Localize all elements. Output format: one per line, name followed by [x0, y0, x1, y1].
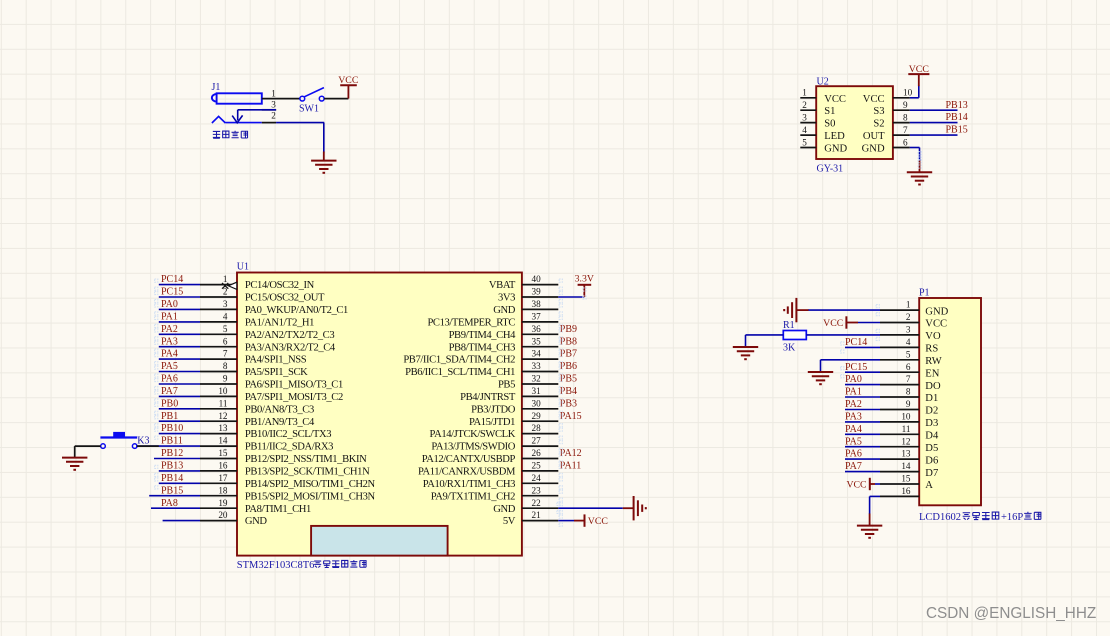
svg-text:10: 10 [903, 88, 913, 98]
U2 pin 1 (VCC) [800, 88, 846, 105]
svg-text:37: 37 [532, 312, 542, 322]
svg-text:PA6/SPI1_MISO/T3_C1: PA6/SPI1_MISO/T3_C1 [245, 380, 343, 391]
svg-text:PA1/AN1/T2_H1: PA1/AN1/T2_H1 [245, 318, 314, 329]
svg-text:A: A [925, 480, 933, 491]
svg-text:15: 15 [901, 474, 911, 484]
svg-text:D6: D6 [925, 455, 938, 466]
U1 pin 11 net PB0 [159, 398, 314, 415]
U1 pin 10 net PA7 [159, 386, 343, 403]
svg-text:PB10/IIC2_SCL/TX3: PB10/IIC2_SCL/TX3 [245, 429, 331, 440]
svg-text:11: 11 [902, 424, 911, 434]
svg-text:1: 1 [906, 300, 911, 310]
svg-text:GND: GND [245, 516, 268, 527]
svg-text:23: 23 [532, 485, 542, 495]
module U2 GY-31 body [816, 77, 893, 175]
svg-text:PA4: PA4 [845, 424, 862, 435]
svg-text:PA1: PA1 [161, 312, 178, 323]
svg-text:31: 31 [532, 386, 542, 396]
svg-text:14: 14 [218, 436, 228, 446]
wire SW1 to VCC [324, 98, 348, 100]
ground (right of U1) [634, 496, 646, 520]
J1 pin 3 [262, 100, 276, 110]
svg-text:PB9/TIM4_CH4: PB9/TIM4_CH4 [449, 330, 517, 341]
svg-text:PB14: PB14 [161, 473, 183, 484]
svg-text:22: 22 [532, 498, 542, 508]
svg-text:D7: D7 [925, 468, 938, 479]
svg-text:S3: S3 [873, 106, 884, 117]
U1 pin 7 net PA4 [159, 349, 307, 366]
U1 pin 28 [430, 423, 559, 440]
wire U2 pin6 to ground [910, 148, 920, 173]
wire R1 right to P1 pin3 VO [806, 334, 880, 336]
svg-text:PA12/CANTX/USBDP: PA12/CANTX/USBDP [422, 454, 516, 465]
svg-text:DO: DO [925, 381, 941, 392]
wire P1 pin16 to ground [870, 496, 880, 525]
svg-text:PB8/TIM4_CH3: PB8/TIM4_CH3 [449, 342, 516, 353]
svg-text:10: 10 [901, 412, 911, 422]
svg-text:PB13: PB13 [946, 100, 968, 111]
svg-text:PA15: PA15 [560, 411, 582, 422]
wire U1 pin22 GND to ground [558, 507, 633, 509]
svg-text:2: 2 [906, 312, 911, 322]
ground (below RW wire) [808, 372, 833, 384]
svg-text:5: 5 [906, 349, 911, 359]
svg-text:PB6/IIC1_SCL/TIM4_CH1: PB6/IIC1_SCL/TIM4_CH1 [405, 367, 515, 378]
U1 pin 16 net PB13 [159, 461, 370, 478]
wire U1 pin39 to 3.3V [558, 285, 584, 297]
U1 pin 9 net PA6 [159, 374, 343, 391]
wire J1 pin2 to ground [276, 123, 324, 161]
svg-text:6: 6 [223, 336, 228, 346]
U1 pin 31 net PB4 [460, 386, 577, 403]
U1 pin 22 [493, 498, 558, 515]
power 3.3V [575, 274, 594, 285]
ground (below U2) [907, 172, 932, 184]
svg-text:PC15: PC15 [845, 362, 867, 373]
svg-text:1: 1 [802, 88, 807, 98]
ground (left of P1 pin1) [784, 298, 796, 322]
U1 pin 36 net PB9 [449, 324, 577, 341]
ground (left of K3) [62, 458, 87, 470]
P1 pin 11 D4 net PA4 [845, 424, 939, 442]
U1 pin 35 net PB8 [449, 336, 577, 353]
U1 pin 4 net PA1 [159, 312, 314, 329]
switch SW1 [299, 88, 324, 115]
svg-text:PB11/IIC2_SDA/RX3: PB11/IIC2_SDA/RX3 [245, 442, 333, 453]
U1 pin 13 net PB10 [159, 423, 331, 440]
svg-text:PB1/AN9/T3_C4: PB1/AN9/T3_C4 [245, 417, 315, 428]
svg-text:3: 3 [271, 100, 276, 110]
U1 pin 38 [493, 299, 558, 316]
U1 crystal sub-block (light blue) [311, 526, 448, 556]
svg-text:PA15/JTD1: PA15/JTD1 [469, 417, 515, 428]
svg-text:PB7/IIC1_SDA/TIM4_CH2: PB7/IIC1_SDA/TIM4_CH2 [403, 355, 515, 366]
svg-text:PA8/TIM1_CH1: PA8/TIM1_CH1 [245, 504, 311, 515]
svg-text:4: 4 [223, 312, 228, 322]
label 电源接口 [213, 131, 248, 138]
wire U2 pin10 to VCC [910, 86, 919, 98]
svg-text:29: 29 [532, 411, 542, 421]
svg-text:VCC: VCC [823, 318, 843, 329]
svg-text:S2: S2 [873, 119, 884, 130]
P1 pin 7 DO net PA0 [845, 374, 941, 392]
P1 pin 15 A [880, 474, 933, 492]
net PB15 wire [910, 125, 968, 136]
ground (below SW1) [311, 161, 336, 173]
svg-text:PA4: PA4 [161, 349, 178, 360]
U1 pin 29 net PA15 [469, 411, 582, 428]
svg-text:PC14: PC14 [161, 274, 183, 285]
svg-text:35: 35 [532, 336, 542, 346]
svg-text:GND: GND [493, 305, 516, 316]
svg-text:12: 12 [218, 411, 228, 421]
svg-text:20: 20 [218, 510, 228, 520]
U1 pin 34 net PB7 [403, 349, 577, 366]
svg-text:CSDN @ENGLISH_HHZ: CSDN @ENGLISH_HHZ [926, 605, 1096, 622]
svg-text:J1: J1 [212, 82, 221, 93]
U1 pin 27 [431, 436, 558, 453]
svg-text:D5: D5 [925, 443, 938, 454]
svg-text:PA0: PA0 [161, 299, 178, 310]
power VCC (above U2) [908, 64, 929, 86]
svg-text:14: 14 [901, 461, 911, 471]
svg-text:33: 33 [532, 361, 542, 371]
svg-text:PA5: PA5 [161, 361, 178, 372]
svg-text:3: 3 [802, 112, 807, 122]
svg-text:PA3: PA3 [845, 412, 862, 423]
U1 pin1 no-ERC marker [222, 282, 237, 289]
svg-text:S1: S1 [824, 106, 835, 117]
svg-text:8: 8 [223, 361, 228, 371]
svg-text:PC14: PC14 [845, 337, 867, 348]
svg-text:PB13: PB13 [161, 461, 183, 472]
P1 pin 4 RS net PC14 [845, 337, 938, 355]
svg-text:VCC: VCC [824, 94, 846, 105]
U1 pin 26 net PA12 [422, 448, 582, 465]
svg-text:3V3: 3V3 [498, 293, 515, 304]
svg-text:GY-31: GY-31 [817, 164, 844, 175]
U1 pin 19 net PA8 [151, 498, 311, 515]
U1 pin 18 net PB15 [149, 485, 375, 502]
wire U1 pin21 to VCC [558, 520, 584, 522]
svg-text:D3: D3 [925, 418, 938, 429]
U1 title STM32F103C8T6最小系统模块 [237, 560, 366, 571]
svg-text:PA4/SPI1_NSS: PA4/SPI1_NSS [245, 355, 307, 366]
svg-text:VCC: VCC [925, 319, 947, 330]
svg-text:PA10/RX1/TIM1_CH3: PA10/RX1/TIM1_CH3 [423, 479, 515, 490]
P1 pin 9 D2 net PA2 [845, 399, 938, 417]
svg-text:PB0: PB0 [161, 398, 178, 409]
svg-text:PA12: PA12 [560, 448, 582, 459]
P1 pin 1 GND [880, 300, 949, 318]
svg-text:17: 17 [218, 473, 228, 483]
svg-text:PB4/JNTRST: PB4/JNTRST [460, 392, 516, 403]
svg-text:PC13/TEMPER_RTC: PC13/TEMPER_RTC [427, 318, 515, 329]
svg-text:D4: D4 [925, 431, 939, 442]
power VCC (top left) [338, 75, 358, 98]
svg-text:32: 32 [532, 374, 542, 384]
svg-text:PA6: PA6 [161, 374, 178, 385]
svg-text:PA0: PA0 [845, 374, 862, 385]
svg-text:PA0_WKUP/AN0/T2_C1: PA0_WKUP/AN0/T2_C1 [245, 305, 348, 316]
U1 pin 1 net PC14 [159, 274, 315, 291]
svg-text:PA9/TX1TIM1_CH2: PA9/TX1TIM1_CH2 [431, 491, 515, 502]
P1 pin 3 VO [880, 325, 941, 343]
U2 pin 5 (GND) [800, 137, 847, 154]
svg-text:21: 21 [532, 510, 542, 520]
U2 pin 6 (GND) [862, 137, 910, 154]
svg-text:PC15: PC15 [161, 287, 183, 298]
svg-text:2: 2 [271, 110, 276, 120]
svg-text:PC14/OSC32_IN: PC14/OSC32_IN [245, 280, 315, 291]
svg-text:38: 38 [532, 299, 542, 309]
svg-text:PA3: PA3 [161, 336, 178, 347]
svg-text:+16P: +16P [1001, 512, 1023, 523]
svg-text:25: 25 [532, 461, 542, 471]
svg-text:OUT: OUT [863, 131, 885, 142]
U1 pin 17 net PB14 [159, 473, 376, 490]
U1 pin 32 net PB5 [498, 374, 577, 391]
P1 pin 10 D3 net PA3 [845, 412, 938, 430]
svg-text:18: 18 [218, 485, 228, 495]
P1 pin 5 RW [880, 349, 942, 367]
U1 pin 40 [489, 274, 558, 291]
svg-text:26: 26 [532, 448, 542, 458]
svg-text:S0: S0 [824, 119, 835, 130]
svg-text:PB1: PB1 [161, 411, 178, 422]
svg-text:7: 7 [223, 349, 228, 359]
svg-text:GND: GND [925, 306, 948, 317]
U2 pin 3 (S0) [800, 112, 835, 129]
svg-text:VO: VO [925, 331, 941, 342]
svg-text:2: 2 [802, 100, 807, 110]
svg-text:PA6: PA6 [845, 449, 862, 460]
svg-text:30: 30 [532, 398, 542, 408]
P1 pin 8 D1 net PA1 [845, 387, 938, 405]
J1 pin 1 [262, 88, 300, 98]
svg-text:EN: EN [925, 368, 939, 379]
svg-text:7: 7 [903, 125, 908, 135]
wire P1 pin5 RW to ground [821, 360, 881, 372]
svg-text:19: 19 [218, 498, 228, 508]
svg-text:PA13/JTMS/SWDIO: PA13/JTMS/SWDIO [431, 442, 515, 453]
svg-text:R1: R1 [783, 320, 795, 331]
svg-text:40: 40 [532, 274, 542, 284]
svg-text:16: 16 [218, 461, 228, 471]
svg-text:16: 16 [901, 486, 911, 496]
svg-text:3K: 3K [783, 343, 796, 354]
U2 pin 4 (LED) [800, 125, 845, 142]
U2 pin 8 (S2) [873, 112, 909, 129]
P1 title LCD1602液晶显示+16P排座 [919, 512, 1041, 523]
svg-text:11: 11 [219, 398, 228, 408]
net PB14 wire [910, 112, 968, 123]
svg-text:24: 24 [532, 473, 542, 483]
svg-text:5V: 5V [503, 516, 516, 527]
J1 pin 2 [262, 110, 276, 122]
svg-text:LED: LED [824, 131, 845, 142]
U2 pin 10 (VCC) [863, 88, 913, 105]
svg-text:PB15: PB15 [161, 485, 183, 496]
U1 pin 24 [423, 473, 559, 490]
svg-text:GND: GND [493, 504, 516, 515]
svg-text:5: 5 [802, 137, 807, 147]
svg-text:PA3/AN3/RX2/T2_C4: PA3/AN3/RX2/T2_C4 [245, 342, 336, 353]
svg-text:PB14: PB14 [946, 112, 968, 123]
U1 pin 6 net PA3 [159, 336, 336, 353]
U1 pin 12 net PB1 [159, 411, 315, 428]
svg-text:D1: D1 [925, 393, 938, 404]
svg-text:VCC: VCC [588, 516, 608, 527]
wire VCC to P1 pin2 [858, 322, 880, 324]
svg-text:PA5/SPI1_SCK: PA5/SPI1_SCK [245, 367, 308, 378]
resistor R1 3K [783, 320, 806, 354]
svg-text:PA2/AN2/TX2/T2_C3: PA2/AN2/TX2/T2_C3 [245, 330, 334, 341]
U1 pin 37 [427, 312, 558, 329]
pushbutton K3 [100, 432, 149, 449]
svg-text:1: 1 [223, 274, 228, 284]
svg-text:9: 9 [903, 100, 908, 110]
U1 pin 2 net PC15 [159, 287, 325, 304]
U1 pin 20 [163, 510, 268, 527]
svg-text:PB14/SPI2_MISO/TIM1_CH2N: PB14/SPI2_MISO/TIM1_CH2N [245, 479, 376, 490]
svg-text:K3: K3 [137, 435, 149, 446]
svg-text:GND: GND [862, 144, 885, 155]
svg-text:PA7: PA7 [161, 386, 178, 397]
svg-text:9: 9 [906, 399, 911, 409]
svg-text:LCD1602: LCD1602 [919, 512, 961, 523]
P1 pin 14 D7 net PA7 [845, 461, 938, 479]
U2 pin 2 (S1) [800, 100, 835, 117]
svg-text:PB5: PB5 [498, 380, 515, 391]
svg-text:39: 39 [532, 287, 542, 297]
svg-text:8: 8 [906, 387, 911, 397]
svg-text:13: 13 [218, 423, 228, 433]
svg-text:PA2: PA2 [161, 324, 178, 335]
ground (below P1) [857, 526, 882, 538]
svg-text:PA7: PA7 [845, 461, 862, 472]
U1 pin 15 net PB12 [154, 448, 367, 465]
power VCC (P1 pin15) [846, 478, 875, 491]
P1 pin 13 D6 net PA6 [845, 449, 938, 467]
svg-text:5: 5 [223, 324, 228, 334]
svg-text:PA1: PA1 [845, 387, 862, 398]
svg-text:34: 34 [532, 349, 542, 359]
svg-text:4: 4 [802, 125, 807, 135]
wire VCC to P1 pin15 [875, 483, 880, 485]
wire K3 left to ground [75, 446, 101, 458]
U1 pin 23 [431, 485, 559, 502]
svg-text:10: 10 [218, 386, 228, 396]
power VCC (P1 pin2) [823, 316, 858, 329]
svg-text:PA5: PA5 [845, 436, 862, 447]
U1 pin 25 net PA11 [418, 461, 581, 478]
svg-text:VCC: VCC [863, 94, 885, 105]
svg-text:7: 7 [906, 374, 911, 384]
svg-text:PB3/JTDO: PB3/JTDO [471, 404, 516, 415]
svg-text:PB15: PB15 [946, 125, 968, 136]
wire pin3 to jack sleeve with arrow [232, 110, 276, 123]
svg-text:8: 8 [903, 112, 908, 122]
module P1 LCD1602 body [919, 287, 981, 505]
svg-text:PA14/JTCK/SWCLK: PA14/JTCK/SWCLK [430, 429, 516, 440]
svg-text:RS: RS [925, 344, 938, 355]
U1 pin 14 net PB11 [136, 436, 333, 453]
svg-text:SW1: SW1 [299, 104, 319, 115]
P1 pin 2 VCC [880, 312, 947, 330]
net PB13 wire [910, 100, 968, 111]
U1 pin 3 net PA0 [159, 299, 348, 316]
svg-text:3: 3 [223, 299, 228, 309]
svg-text:STM32F103C8T6: STM32F103C8T6 [237, 560, 315, 571]
svg-text:U1: U1 [237, 262, 249, 273]
svg-text:PB13/SPI2_SCK/TIM1_CH1N: PB13/SPI2_SCK/TIM1_CH1N [245, 467, 370, 478]
svg-text:D2: D2 [925, 406, 938, 417]
svg-text:PA11/CANRX/USBDM: PA11/CANRX/USBDM [418, 467, 516, 478]
svg-text:12: 12 [901, 436, 911, 446]
svg-text:PB15/SPI2_MOSI/TIM1_CH3N: PB15/SPI2_MOSI/TIM1_CH3N [245, 491, 376, 502]
svg-text:9: 9 [223, 374, 228, 384]
svg-text:RW: RW [925, 356, 941, 367]
svg-text:36: 36 [532, 324, 542, 334]
svg-text:PA8: PA8 [161, 498, 178, 509]
svg-text:13: 13 [901, 449, 911, 459]
svg-text:PA7/SPI1_MOSI/T3_C2: PA7/SPI1_MOSI/T3_C2 [245, 392, 343, 403]
P1 pin 12 D5 net PA5 [845, 436, 938, 454]
wire end markers [155, 152, 922, 527]
U1 pin 21 [503, 510, 558, 527]
svg-text:3.3V: 3.3V [575, 274, 594, 285]
svg-text:PB0/AN8/T3_C3: PB0/AN8/T3_C3 [245, 404, 314, 415]
U1 pin 30 net PB3 [471, 398, 577, 415]
svg-text:PB12: PB12 [161, 448, 183, 459]
wire P1 pin1 GND to left ground [796, 309, 880, 311]
wire R1 left to ground [746, 335, 784, 347]
svg-text:1: 1 [271, 88, 276, 98]
svg-text:28: 28 [532, 423, 542, 433]
svg-text:GND: GND [824, 144, 847, 155]
U2 pin 7 (OUT) [863, 125, 910, 142]
svg-text:PA2: PA2 [845, 399, 862, 410]
power VCC (right of U1 pin21) [585, 514, 608, 527]
svg-text:6: 6 [903, 137, 908, 147]
svg-text:3: 3 [906, 325, 911, 335]
svg-text:PA11: PA11 [560, 461, 582, 472]
wire K3 right to PB11 [137, 445, 159, 447]
module U1 STM32F103C8T6 body [237, 262, 522, 556]
svg-text:27: 27 [532, 436, 542, 446]
svg-text:15: 15 [218, 448, 228, 458]
U1 pin 33 net PB6 [405, 361, 577, 378]
svg-text:PC15/OSC32_OUT: PC15/OSC32_OUT [245, 293, 325, 304]
U1 pin 39 [498, 287, 558, 304]
svg-text:4: 4 [906, 337, 911, 347]
P1 pin 6 EN net PC15 [845, 362, 940, 380]
U2 pin 9 (S3) [873, 100, 909, 117]
U1 pin 8 net PA5 [159, 361, 308, 378]
svg-text:P1: P1 [919, 287, 930, 298]
svg-text:PB10: PB10 [161, 423, 183, 434]
P1 pin 16 [880, 486, 919, 496]
svg-text:PB11: PB11 [161, 436, 183, 447]
svg-text:VBAT: VBAT [489, 280, 516, 291]
ground (left of R1) [733, 347, 758, 359]
svg-text:6: 6 [906, 362, 911, 372]
svg-text:VCC: VCC [846, 479, 866, 490]
svg-text:PB12/SPI2_NSS/TIM1_BKIN: PB12/SPI2_NSS/TIM1_BKIN [245, 454, 367, 465]
connector J1 (power jack) [212, 82, 262, 123]
U1 pin 5 net PA2 [159, 324, 335, 341]
